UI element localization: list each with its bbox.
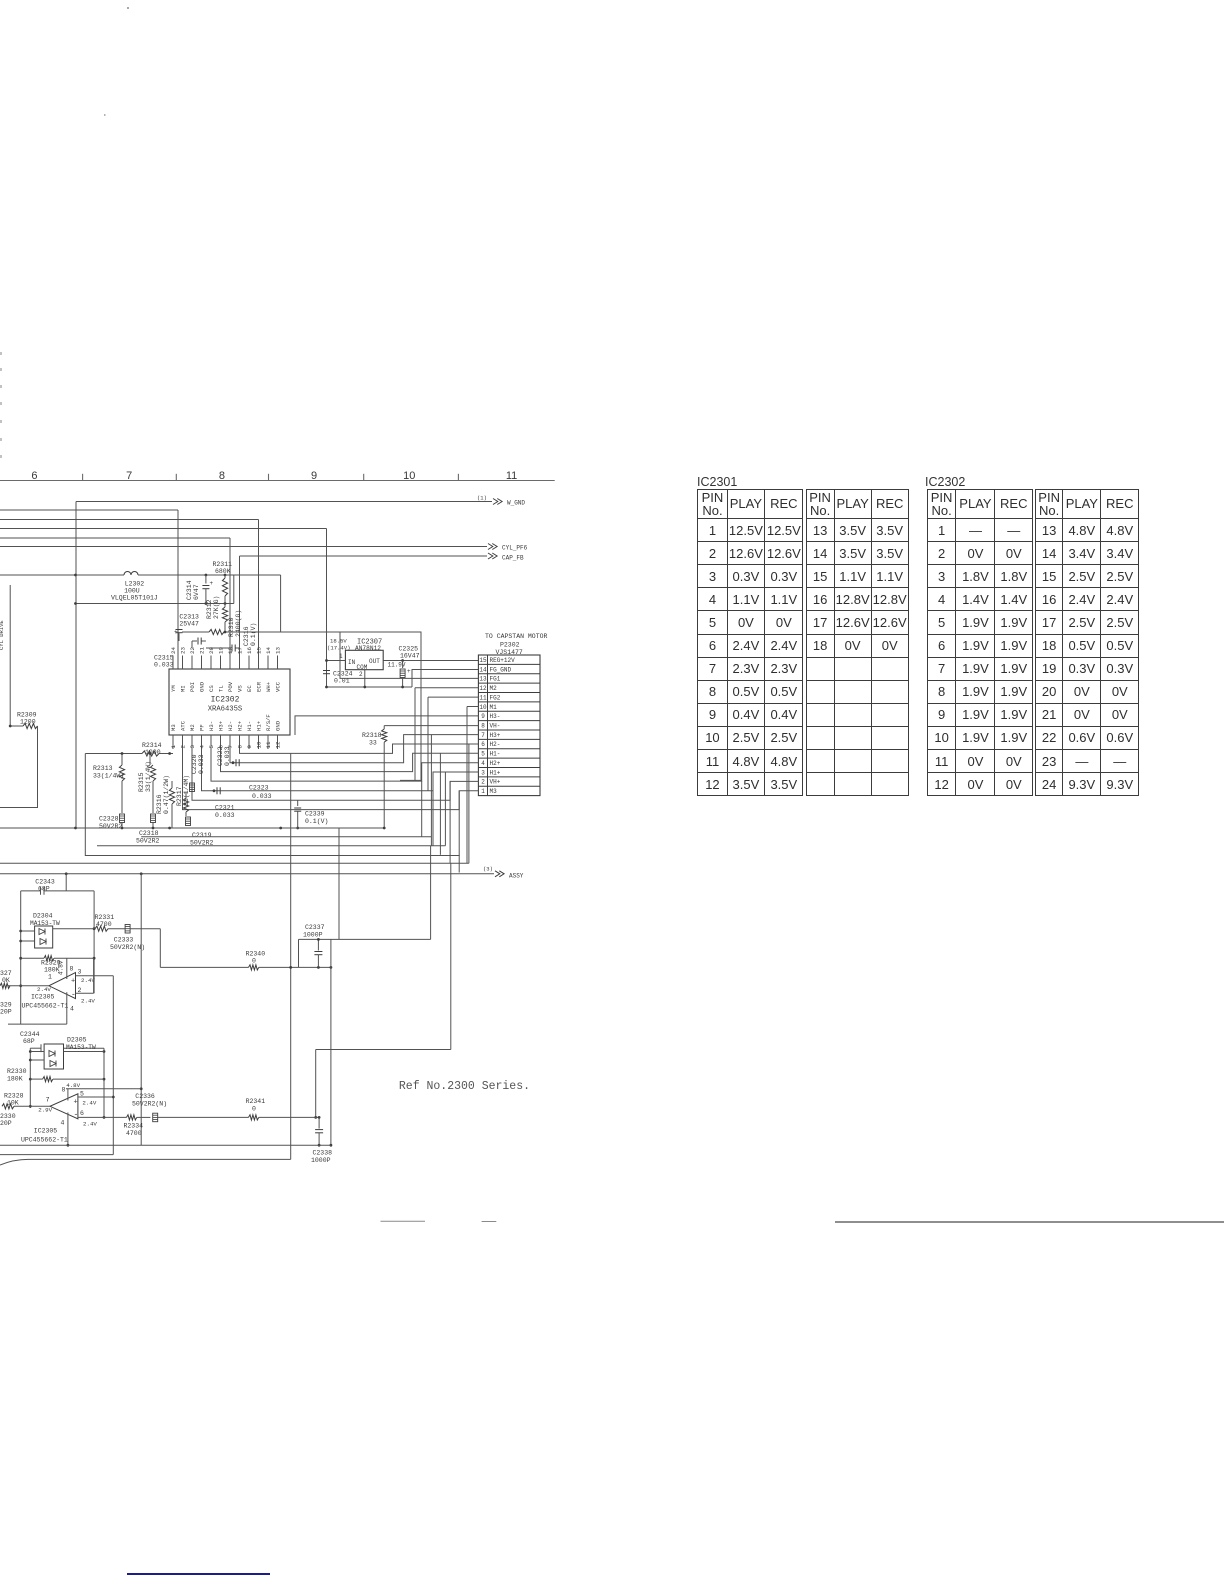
svg-text:W_GND: W_GND <box>507 500 525 507</box>
svg-text:3: 3 <box>189 745 196 749</box>
svg-text:3: 3 <box>78 969 82 976</box>
svg-text:R2331: R2331 <box>95 914 115 921</box>
capacitor C2320 0.033 <box>190 754 206 791</box>
svg-text:POI: POI <box>189 682 196 692</box>
svg-text:329: 329 <box>0 1002 12 1009</box>
op-amp IC2305 (upper) <box>0 958 113 1024</box>
capacitor C2338 1000P <box>311 1117 332 1164</box>
svg-text:FG1: FG1 <box>490 676 501 683</box>
svg-text:27K(G): 27K(G) <box>213 596 220 619</box>
wire ASSY net <box>0 866 524 880</box>
wire bottom bus y1158 <box>0 1159 291 1165</box>
svg-text:ASSY: ASSY <box>509 873 524 880</box>
svg-text:0.1(V): 0.1(V) <box>305 818 328 825</box>
svg-text:H3+: H3+ <box>218 720 225 731</box>
resistor R2340 0 <box>160 951 332 971</box>
svg-text:24: 24 <box>170 647 177 654</box>
wire opamp1 enclosure <box>19 873 95 1024</box>
wire long vertical x330 <box>330 939 333 1146</box>
wire fan pin to row4 <box>211 749 478 781</box>
resistor R2334 4700 <box>124 1115 151 1137</box>
resistor R2310 2400(G) <box>182 610 281 637</box>
svg-text:CYL DRIVE: CYL DRIVE <box>0 620 5 650</box>
wire pin3 feedback vertical <box>0 976 115 1155</box>
svg-text:M2: M2 <box>189 724 196 731</box>
svg-text:C2313: C2313 <box>179 614 199 621</box>
svg-text:6: 6 <box>80 1110 84 1117</box>
capacitor C2336 50V2R2(N) <box>132 1093 249 1122</box>
svg-text:H2+: H2+ <box>490 760 501 767</box>
svg-text:16V47: 16V47 <box>400 653 420 660</box>
svg-text:2.4V: 2.4V <box>81 998 95 1005</box>
wire IC2307 pin1 IN <box>325 653 345 662</box>
resistor R2312 27K(G) <box>206 596 228 632</box>
svg-text:D2304: D2304 <box>33 913 53 920</box>
svg-text:C2323: C2323 <box>249 785 269 792</box>
ruler numbers <box>31 470 517 482</box>
svg-text:+: + <box>174 629 178 636</box>
svg-text:UPC455662-T1: UPC455662-T1 <box>21 1137 68 1144</box>
resistor R2329 180K <box>21 956 94 981</box>
wire fan pin to row5 <box>221 749 479 772</box>
svg-text:R2328: R2328 <box>4 1093 24 1100</box>
capacitor C2318 50V2R2 <box>136 814 160 845</box>
svg-text:P2302: P2302 <box>500 642 520 649</box>
table IC2301 right half <box>806 489 908 796</box>
svg-text:1000P: 1000P <box>311 1157 331 1164</box>
svg-text:8: 8 <box>70 966 74 973</box>
wire node line y603 <box>74 575 234 605</box>
svg-text:+: + <box>71 978 75 986</box>
svg-text:16: 16 <box>246 647 253 654</box>
svg-text:CS: CS <box>208 685 215 692</box>
svg-text:13: 13 <box>479 676 487 683</box>
svg-text:+: + <box>210 580 214 587</box>
resistor R2309 1200 <box>0 585 38 808</box>
svg-text:11: 11 <box>506 470 517 482</box>
svg-text:IC2302: IC2302 <box>211 696 240 705</box>
capacitor C2322 0.033 <box>217 746 239 766</box>
svg-text:14: 14 <box>479 666 487 673</box>
svg-text:REG+12V: REG+12V <box>490 657 516 664</box>
table IC2302 left half <box>927 489 1032 796</box>
svg-text:C2325: C2325 <box>399 646 419 653</box>
svg-text:VJS1477: VJS1477 <box>496 649 523 656</box>
svg-text:UPC455662-T1: UPC455662-T1 <box>22 1003 69 1010</box>
resistor R2330 180K <box>7 1068 104 1083</box>
capacitor C2314 6V47 <box>186 575 214 604</box>
svg-text:8: 8 <box>219 470 225 482</box>
resistor R2328 10K cut label <box>4 1093 24 1107</box>
wire bus line 3 <box>0 520 259 669</box>
svg-text:C2338: C2338 <box>313 1150 333 1157</box>
svg-text:180K: 180K <box>7 1076 23 1083</box>
svg-text:FG2: FG2 <box>490 694 501 701</box>
diode D2305 MA153-TW <box>30 1037 104 1070</box>
svg-text:18.5V: 18.5V <box>330 638 347 645</box>
svg-text:2400(G): 2400(G) <box>235 610 242 637</box>
svg-text:L2302: L2302 <box>125 581 145 588</box>
svg-text:C2321: C2321 <box>215 805 235 812</box>
capacitor C2313 25V47 <box>174 614 199 642</box>
svg-text:TO CAPSTAN MOTOR: TO CAPSTAN MOTOR <box>485 633 548 640</box>
page edge marks <box>381 1220 1224 1223</box>
diode D2304 MA153-TW <box>21 913 60 949</box>
svg-text:50V2R2: 50V2R2 <box>99 823 123 830</box>
svg-text:-: - <box>74 1111 79 1120</box>
svg-text:C2344: C2344 <box>20 1031 40 1038</box>
svg-text:11: 11 <box>479 694 487 701</box>
capacitor C2330 20P cut label <box>0 1113 16 1127</box>
svg-text:4.8V: 4.8V <box>58 960 65 975</box>
svg-text:17: 17 <box>237 647 244 654</box>
svg-text:C2315: C2315 <box>154 655 174 662</box>
svg-text:POV: POV <box>227 681 234 692</box>
svg-text:C2316: C2316 <box>243 626 250 646</box>
svg-text:C2336: C2336 <box>135 1093 155 1100</box>
svg-text:4.8V: 4.8V <box>66 1082 80 1089</box>
svg-text:R2340: R2340 <box>246 951 266 958</box>
svg-text:21: 21 <box>199 647 206 654</box>
svg-text:1: 1 <box>481 788 485 795</box>
resistor R2317 33(1/4M) <box>176 775 190 816</box>
svg-text:M1: M1 <box>490 704 498 711</box>
svg-text:(3): (3) <box>483 866 493 873</box>
wire bottom bus y1145 <box>0 1144 331 1146</box>
wire long vertical x290 <box>289 856 292 1160</box>
svg-text:15: 15 <box>256 647 263 654</box>
table IC2302 right half <box>1035 489 1138 796</box>
svg-text:25V47: 25V47 <box>179 621 199 628</box>
svg-text:ATC: ATC <box>180 720 187 731</box>
op-amp IC2305 (lower) <box>2 1082 141 1147</box>
svg-text:H3+: H3+ <box>490 732 501 739</box>
capacitor C2328 50V2R2 <box>99 814 125 830</box>
svg-text:R2314: R2314 <box>142 742 162 749</box>
svg-text:4: 4 <box>481 760 485 767</box>
svg-text:VS: VS <box>237 685 244 692</box>
svg-text:VH+: VH+ <box>490 779 501 786</box>
svg-text:FG_GND: FG_GND <box>490 666 512 673</box>
svg-text:20P: 20P <box>0 1009 12 1016</box>
wire long vertical x141 <box>140 873 143 1145</box>
svg-text:C2314: C2314 <box>186 580 193 600</box>
svg-text:2: 2 <box>481 779 485 786</box>
blue underline mark <box>127 1573 270 1575</box>
svg-text:IN: IN <box>348 659 356 666</box>
wire staircase drop x430 <box>339 828 431 939</box>
svg-text:8: 8 <box>481 723 485 730</box>
capacitor C2321 0.033 <box>186 805 235 826</box>
svg-text:2: 2 <box>180 745 187 749</box>
capacitor C2319 50V2R2 <box>190 832 214 847</box>
svg-text:(17.4V): (17.4V) <box>327 645 351 652</box>
svg-text:C2343: C2343 <box>35 879 55 886</box>
svg-text:AN78N12: AN78N12 <box>355 645 381 652</box>
svg-text:327: 327 <box>0 970 12 977</box>
svg-text:4: 4 <box>199 745 206 749</box>
svg-text:GND: GND <box>199 681 206 692</box>
wire IC2307 COM pin2 <box>359 670 365 687</box>
table IC2301 left half <box>697 489 802 796</box>
wire ground bus y863 <box>0 744 469 863</box>
wire ground bus y855 <box>85 855 459 857</box>
svg-text:4: 4 <box>70 1006 74 1013</box>
capacitor C2325 16V47 <box>399 646 420 688</box>
svg-text:0.033: 0.033 <box>154 662 174 669</box>
table IC2301 label <box>697 475 737 489</box>
wire regulator enclosure <box>281 575 421 780</box>
svg-text:M3: M3 <box>170 724 177 731</box>
svg-text:2.4V: 2.4V <box>83 1121 97 1128</box>
svg-text:5: 5 <box>208 745 215 749</box>
svg-text:4: 4 <box>61 1120 65 1127</box>
svg-text:MI: MI <box>180 685 187 692</box>
svg-text:6: 6 <box>31 470 37 482</box>
capacitor C2324 0.01 <box>323 671 353 685</box>
svg-text:10: 10 <box>256 741 263 748</box>
wire ground bus y828 <box>0 827 386 830</box>
svg-text:R2309: R2309 <box>17 712 37 719</box>
svg-text:R2310: R2310 <box>228 617 235 637</box>
resistor R2314 1000 <box>85 742 173 756</box>
svg-text:C2339: C2339 <box>305 811 325 818</box>
ruler scale line <box>0 474 555 481</box>
svg-text:H2+: H2+ <box>237 720 244 731</box>
wire fan pin to row3 <box>202 749 479 791</box>
svg-text:H1+: H1+ <box>490 769 501 776</box>
svg-text:R2330: R2330 <box>7 1068 27 1075</box>
capacitor C2344 68P <box>20 1031 104 1052</box>
svg-text:1000P: 1000P <box>303 932 323 939</box>
svg-text:23: 23 <box>180 647 187 654</box>
wire vertical drops to ground buses <box>415 688 467 873</box>
svg-text:R2317: R2317 <box>176 786 183 806</box>
svg-text:33: 33 <box>369 740 377 747</box>
svg-text:C2318: C2318 <box>139 830 159 837</box>
svg-text:2330: 2330 <box>0 1113 16 1120</box>
svg-text:4700: 4700 <box>126 1130 142 1137</box>
resistor R2341 0 <box>246 1098 321 1120</box>
svg-text:5: 5 <box>481 751 485 758</box>
wire bus line 5 <box>0 538 230 669</box>
svg-text:0.47(1/2W): 0.47(1/2W) <box>163 775 170 814</box>
svg-text:12: 12 <box>479 685 487 692</box>
svg-text:0.033: 0.033 <box>252 793 272 800</box>
svg-text:50V2R2(N): 50V2R2(N) <box>132 1101 167 1108</box>
svg-text:0: 0 <box>252 958 256 965</box>
resistor R2313 33(1/4W) <box>93 752 125 813</box>
svg-text:GND: GND <box>275 720 282 731</box>
svg-text:2.4V: 2.4V <box>37 986 51 993</box>
wire box A around filters <box>85 754 290 856</box>
svg-text:14: 14 <box>265 647 272 654</box>
svg-text:20: 20 <box>208 647 215 654</box>
svg-text:5: 5 <box>80 1091 84 1098</box>
wire row13 entry <box>340 632 478 678</box>
capacitor C2333 50V2R2(N) <box>110 925 160 968</box>
svg-text:YM: YM <box>170 685 177 692</box>
page edge marks left <box>1 8 129 458</box>
svg-text:2.4V: 2.4V <box>82 1100 96 1107</box>
svg-text:10: 10 <box>403 470 415 482</box>
capacitor C2337 1000P <box>299 924 431 967</box>
inductor L2302 <box>0 572 281 602</box>
svg-text:R2311: R2311 <box>213 561 233 568</box>
svg-text:18: 18 <box>227 647 234 654</box>
svg-text:VLQEL05T101J: VLQEL05T101J <box>111 595 158 602</box>
svg-text:50V2R2(N): 50V2R2(N) <box>110 944 145 951</box>
wire CAP_FB <box>240 553 525 669</box>
svg-text:TL: TL <box>218 685 225 692</box>
capacitor C2339 0.1(V) <box>294 800 328 829</box>
svg-text:12: 12 <box>275 741 282 748</box>
wire row9 entry <box>295 716 478 735</box>
svg-text:2: 2 <box>359 671 363 678</box>
svg-text:R2315: R2315 <box>138 772 145 792</box>
wire W_GND net <box>76 495 525 829</box>
wire fan pin to row2 <box>192 749 478 800</box>
svg-text:EC: EC <box>246 685 253 692</box>
resistor R2316 0.47(1/2W) <box>156 775 175 828</box>
svg-text:R2341: R2341 <box>246 1098 266 1105</box>
svg-text:PF: PF <box>199 724 206 731</box>
resistor R2331 4700 <box>53 914 125 931</box>
svg-text:10: 10 <box>479 704 487 711</box>
svg-text:H3-: H3- <box>208 721 215 731</box>
svg-text:R/S/F: R/S/F <box>265 714 272 731</box>
connector P2302 VJS1477 to capstan motor <box>478 633 547 796</box>
svg-text:M3: M3 <box>490 788 498 795</box>
resistor R2327 cut label <box>0 970 12 984</box>
wire fan pin to row6 <box>240 744 479 753</box>
svg-text:100U: 100U <box>124 588 140 595</box>
wire staircase drop x450 <box>314 863 450 1119</box>
svg-text:Ref No.2300 Series.: Ref No.2300 Series. <box>399 1080 530 1093</box>
svg-text:VCC: VCC <box>275 681 282 692</box>
svg-text:H1-: H1- <box>246 721 253 731</box>
svg-text:0.033: 0.033 <box>224 746 231 766</box>
svg-text:WH+: WH+ <box>265 681 272 692</box>
svg-text:1: 1 <box>48 974 52 981</box>
svg-text:M2: M2 <box>490 685 498 692</box>
svg-text:2.9V: 2.9V <box>38 1107 52 1114</box>
wire bus line 4 <box>0 529 327 688</box>
wire row12 entry <box>415 687 478 689</box>
resistor R2315 33(1/4W) <box>138 752 156 813</box>
svg-text:C2319: C2319 <box>192 832 212 839</box>
capacitor C2316 0.1(V) <box>206 623 257 652</box>
svg-text:IC2305: IC2305 <box>31 994 55 1001</box>
svg-text:R2318: R2318 <box>362 732 382 739</box>
svg-text:-: - <box>71 991 76 1000</box>
svg-text:9: 9 <box>311 470 317 482</box>
wire row11 entry <box>428 696 478 698</box>
svg-text:C2320: C2320 <box>191 754 198 774</box>
capacitor C2323 0.033 <box>213 785 272 801</box>
regulator IC2307 AN78N12 <box>327 638 383 672</box>
svg-text:R2312: R2312 <box>206 599 213 619</box>
wire row10 entry <box>467 706 478 708</box>
svg-text:H3-: H3- <box>490 713 501 720</box>
svg-text:H1+: H1+ <box>256 720 263 731</box>
svg-text:R2316: R2316 <box>156 794 163 814</box>
svg-text:CYL_PF6: CYL_PF6 <box>502 545 528 552</box>
capacitor C2343 68P <box>21 879 94 895</box>
svg-text:15: 15 <box>479 657 487 664</box>
svg-text:R2313: R2313 <box>93 765 113 772</box>
svg-text:8: 8 <box>237 745 244 749</box>
svg-text:2: 2 <box>78 987 82 994</box>
wire fan pin to row1 <box>183 749 479 810</box>
svg-text:+: + <box>407 668 411 675</box>
svg-text:11.9V: 11.9V <box>388 662 406 669</box>
svg-text:C2337: C2337 <box>305 924 325 931</box>
svg-text:20P: 20P <box>0 1120 12 1127</box>
wire CYL_PF6 <box>0 544 528 552</box>
wire opamp2 enclosure <box>29 1048 106 1119</box>
svg-text:C2324: C2324 <box>333 671 353 678</box>
wire fan pin to row7 <box>230 735 478 763</box>
resistor R2311 680K <box>213 561 233 604</box>
node label left cut <box>0 620 5 650</box>
svg-text:0.033: 0.033 <box>215 812 235 819</box>
svg-text:IC2305: IC2305 <box>34 1128 58 1135</box>
svg-text:D2305: D2305 <box>67 1037 87 1044</box>
svg-text:H1-: H1- <box>490 751 501 758</box>
svg-text:0: 0 <box>252 1106 256 1113</box>
svg-text:C2328: C2328 <box>99 816 119 823</box>
svg-text:MA153-TW: MA153-TW <box>66 1044 96 1051</box>
svg-text:22: 22 <box>189 647 196 654</box>
svg-text:11: 11 <box>265 741 272 748</box>
svg-text:+: + <box>74 1099 78 1107</box>
svg-text:7: 7 <box>46 1097 50 1104</box>
svg-text:68P: 68P <box>23 1038 35 1045</box>
svg-text:CAP_FB: CAP_FB <box>502 555 524 562</box>
svg-text:19: 19 <box>218 647 225 654</box>
op-amp IC2302 XRA6435S main IC <box>169 647 290 749</box>
capacitor C2329 cut label <box>0 1002 12 1016</box>
svg-text:0K: 0K <box>2 977 10 984</box>
svg-text:H2-: H2- <box>227 721 234 731</box>
svg-text:7: 7 <box>126 470 132 482</box>
svg-text:R2334: R2334 <box>124 1123 144 1130</box>
svg-text:OUT: OUT <box>369 658 380 665</box>
svg-text:9: 9 <box>246 745 253 749</box>
svg-text:XRA6435S: XRA6435S <box>208 706 243 714</box>
table IC2302 label <box>925 475 965 489</box>
capacitor C2315 0.033 <box>154 638 206 669</box>
svg-text:50V2R2: 50V2R2 <box>136 838 160 845</box>
svg-text:0.033: 0.033 <box>198 754 205 774</box>
svg-text:VH-: VH- <box>490 723 501 730</box>
svg-text:C2333: C2333 <box>114 937 134 944</box>
svg-text:9: 9 <box>481 713 485 720</box>
svg-text:0.1(V): 0.1(V) <box>250 623 257 646</box>
svg-text:8: 8 <box>62 1087 66 1094</box>
wire ground bus y845 <box>97 772 445 846</box>
svg-text:C2322: C2322 <box>217 746 224 766</box>
wire bus line 2 <box>0 510 178 669</box>
wire opamp1 bottom <box>8 1023 67 1025</box>
svg-text:6V47: 6V47 <box>193 584 200 600</box>
svg-text:H2-: H2- <box>490 741 501 748</box>
svg-text:6: 6 <box>481 741 485 748</box>
svg-text:COM: COM <box>357 664 368 671</box>
svg-text:680K: 680K <box>215 568 231 575</box>
svg-text:1: 1 <box>170 745 177 749</box>
